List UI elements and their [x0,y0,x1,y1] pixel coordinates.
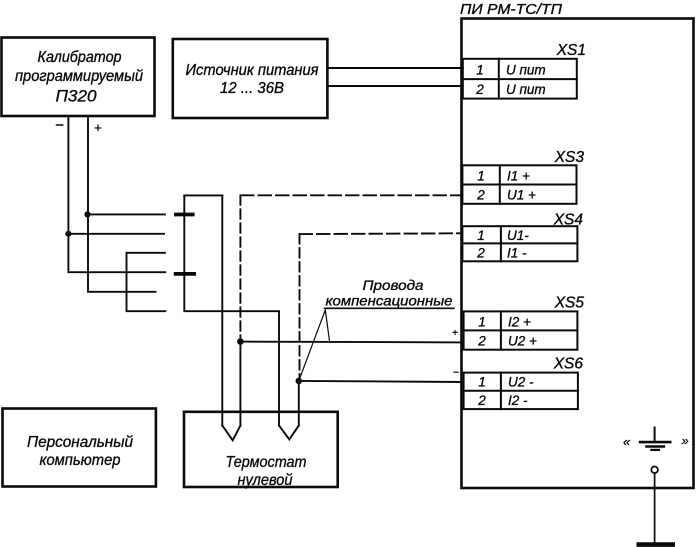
wire junction1 down to thermostat [239,342,241,426]
svg-text:программируемый: программируемый [15,68,143,85]
svg-text:1: 1 [477,228,485,243]
polarity plus near XS5 [452,328,458,339]
leader line left leg [299,310,326,381]
junction compensation 1 [237,338,244,345]
PI RM-TS/TP device box U1 [460,1,694,488]
wire to XS5 pin 2 [240,341,461,344]
thermostat box [184,412,338,489]
dashed wire XS3 pin2 vertical [239,195,241,339]
compensation wires callout [325,277,454,309]
ground terminal circle [651,467,658,474]
personal computer box [3,409,156,487]
junction plus [84,211,90,217]
wire power supply to XS1 pin 2 [327,85,462,87]
svg-text:I1 +: I1 + [507,169,530,184]
wire to XS6 pin 1 [299,381,462,382]
wire calibrator minus branch [68,233,164,235]
junction compensation 2 [296,378,303,385]
svg-text:ПИ РМ-ТС/ТП: ПИ РМ-ТС/ТП [460,1,562,18]
ground quote left [623,434,631,449]
calibrator P320 box [2,38,155,117]
svg-text:+: + [94,120,102,135]
svg-text:1: 1 [476,63,484,78]
svg-text:U2 +: U2 + [508,334,537,349]
dashed wire XS4 pin1 vertical [299,234,301,378]
svg-text:Источник питания: Источник питания [186,62,319,79]
ground symbol [640,428,670,450]
wire calibrator minus down and right [68,116,165,272]
svg-text:компьютер: компьютер [40,452,121,469]
wire calibrator plus branch [88,213,165,215]
connector bar plug 2 [176,272,194,276]
wire right rail down to thermostat [221,195,223,425]
svg-text:1: 1 [477,169,485,184]
svg-text:U пит: U пит [506,63,546,78]
calibrator minus terminal label [55,117,64,134]
svg-text:I1 -: I1 - [507,246,527,261]
svg-text:2: 2 [476,246,485,261]
svg-text:U пит: U пит [506,82,546,97]
thermocouple probe 1 [222,426,240,441]
svg-text:−: − [453,368,459,379]
ground wire down [654,473,656,542]
polarity minus near XS6 [453,368,459,379]
wire Z link [127,253,166,311]
svg-text:+: + [452,328,458,339]
svg-text:нулевой: нулевой [238,472,293,489]
connector XS4 [462,212,583,262]
svg-text:U1 +: U1 + [507,188,536,203]
leader line right leg [325,310,329,343]
svg-text:XS6: XS6 [553,356,584,373]
wire left rail down to thermostat [184,195,279,425]
svg-text:«: « [623,434,631,449]
wire power supply to XS1 pin 1 [327,67,462,69]
svg-text:Персональный: Персональный [27,434,133,451]
svg-text:компенсационные: компенсационные [326,293,453,309]
svg-text:2: 2 [475,82,484,97]
junction minus [65,231,71,237]
ground quote right [682,433,689,448]
svg-text:I2 -: I2 - [508,393,528,408]
svg-text:П320: П320 [56,87,98,106]
dashed wire XS3 pin2 horizontal [241,194,462,196]
svg-text:XS5: XS5 [554,295,585,312]
thermocouple probe 2 [279,426,299,440]
svg-text:2: 2 [477,393,486,408]
power supply box [173,39,328,118]
svg-text:12 ... 36В: 12 ... 36В [220,80,284,97]
svg-text:2: 2 [477,334,486,349]
wire calibrator plus down and right [88,116,156,292]
calibrator plus terminal label [94,120,102,135]
svg-text:1: 1 [478,375,486,390]
connector XS3 [462,149,584,204]
dashed wire XS4 pin1 horizontal [300,232,462,235]
connector XS1 [463,42,586,99]
connector XS6 [464,356,584,410]
connector XS5 [464,295,585,350]
svg-text:1: 1 [478,315,486,330]
svg-text:XS3: XS3 [554,149,585,166]
wire pair top bridge [184,194,222,196]
svg-text:Провода: Провода [363,277,424,293]
svg-text:»: » [682,433,689,448]
svg-text:XS1: XS1 [556,42,586,59]
svg-text:−: − [55,117,64,134]
svg-text:Термостат: Термостат [226,454,307,471]
svg-text:I2 +: I2 + [508,315,531,330]
earth bar [639,542,673,547]
svg-text:U1-: U1- [507,228,529,243]
svg-text:Калибратор: Калибратор [38,49,122,66]
wire junction2 down to thermostat [298,381,300,426]
svg-text:U2 -: U2 - [508,375,534,390]
svg-text:2: 2 [476,188,485,203]
connector bar plug 1 [176,213,193,217]
